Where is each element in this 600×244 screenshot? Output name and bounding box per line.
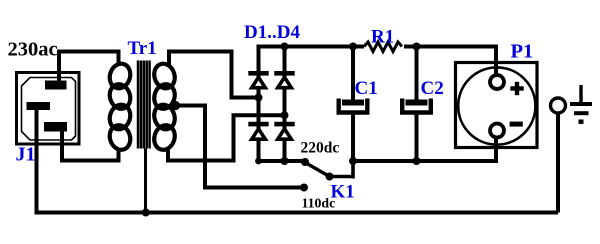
svg-text:220dc: 220dc [301,140,340,157]
svg-text:110dc: 110dc [302,196,336,211]
svg-text:C1: C1 [355,78,378,99]
svg-text:P1: P1 [511,41,534,63]
svg-text:Tr1: Tr1 [128,38,157,59]
svg-text:230ac: 230ac [8,39,58,61]
svg-text:R1: R1 [371,27,394,48]
svg-text:J1: J1 [16,144,36,166]
svg-text:C2: C2 [421,78,444,99]
svg-text:D1..D4: D1..D4 [244,22,300,43]
